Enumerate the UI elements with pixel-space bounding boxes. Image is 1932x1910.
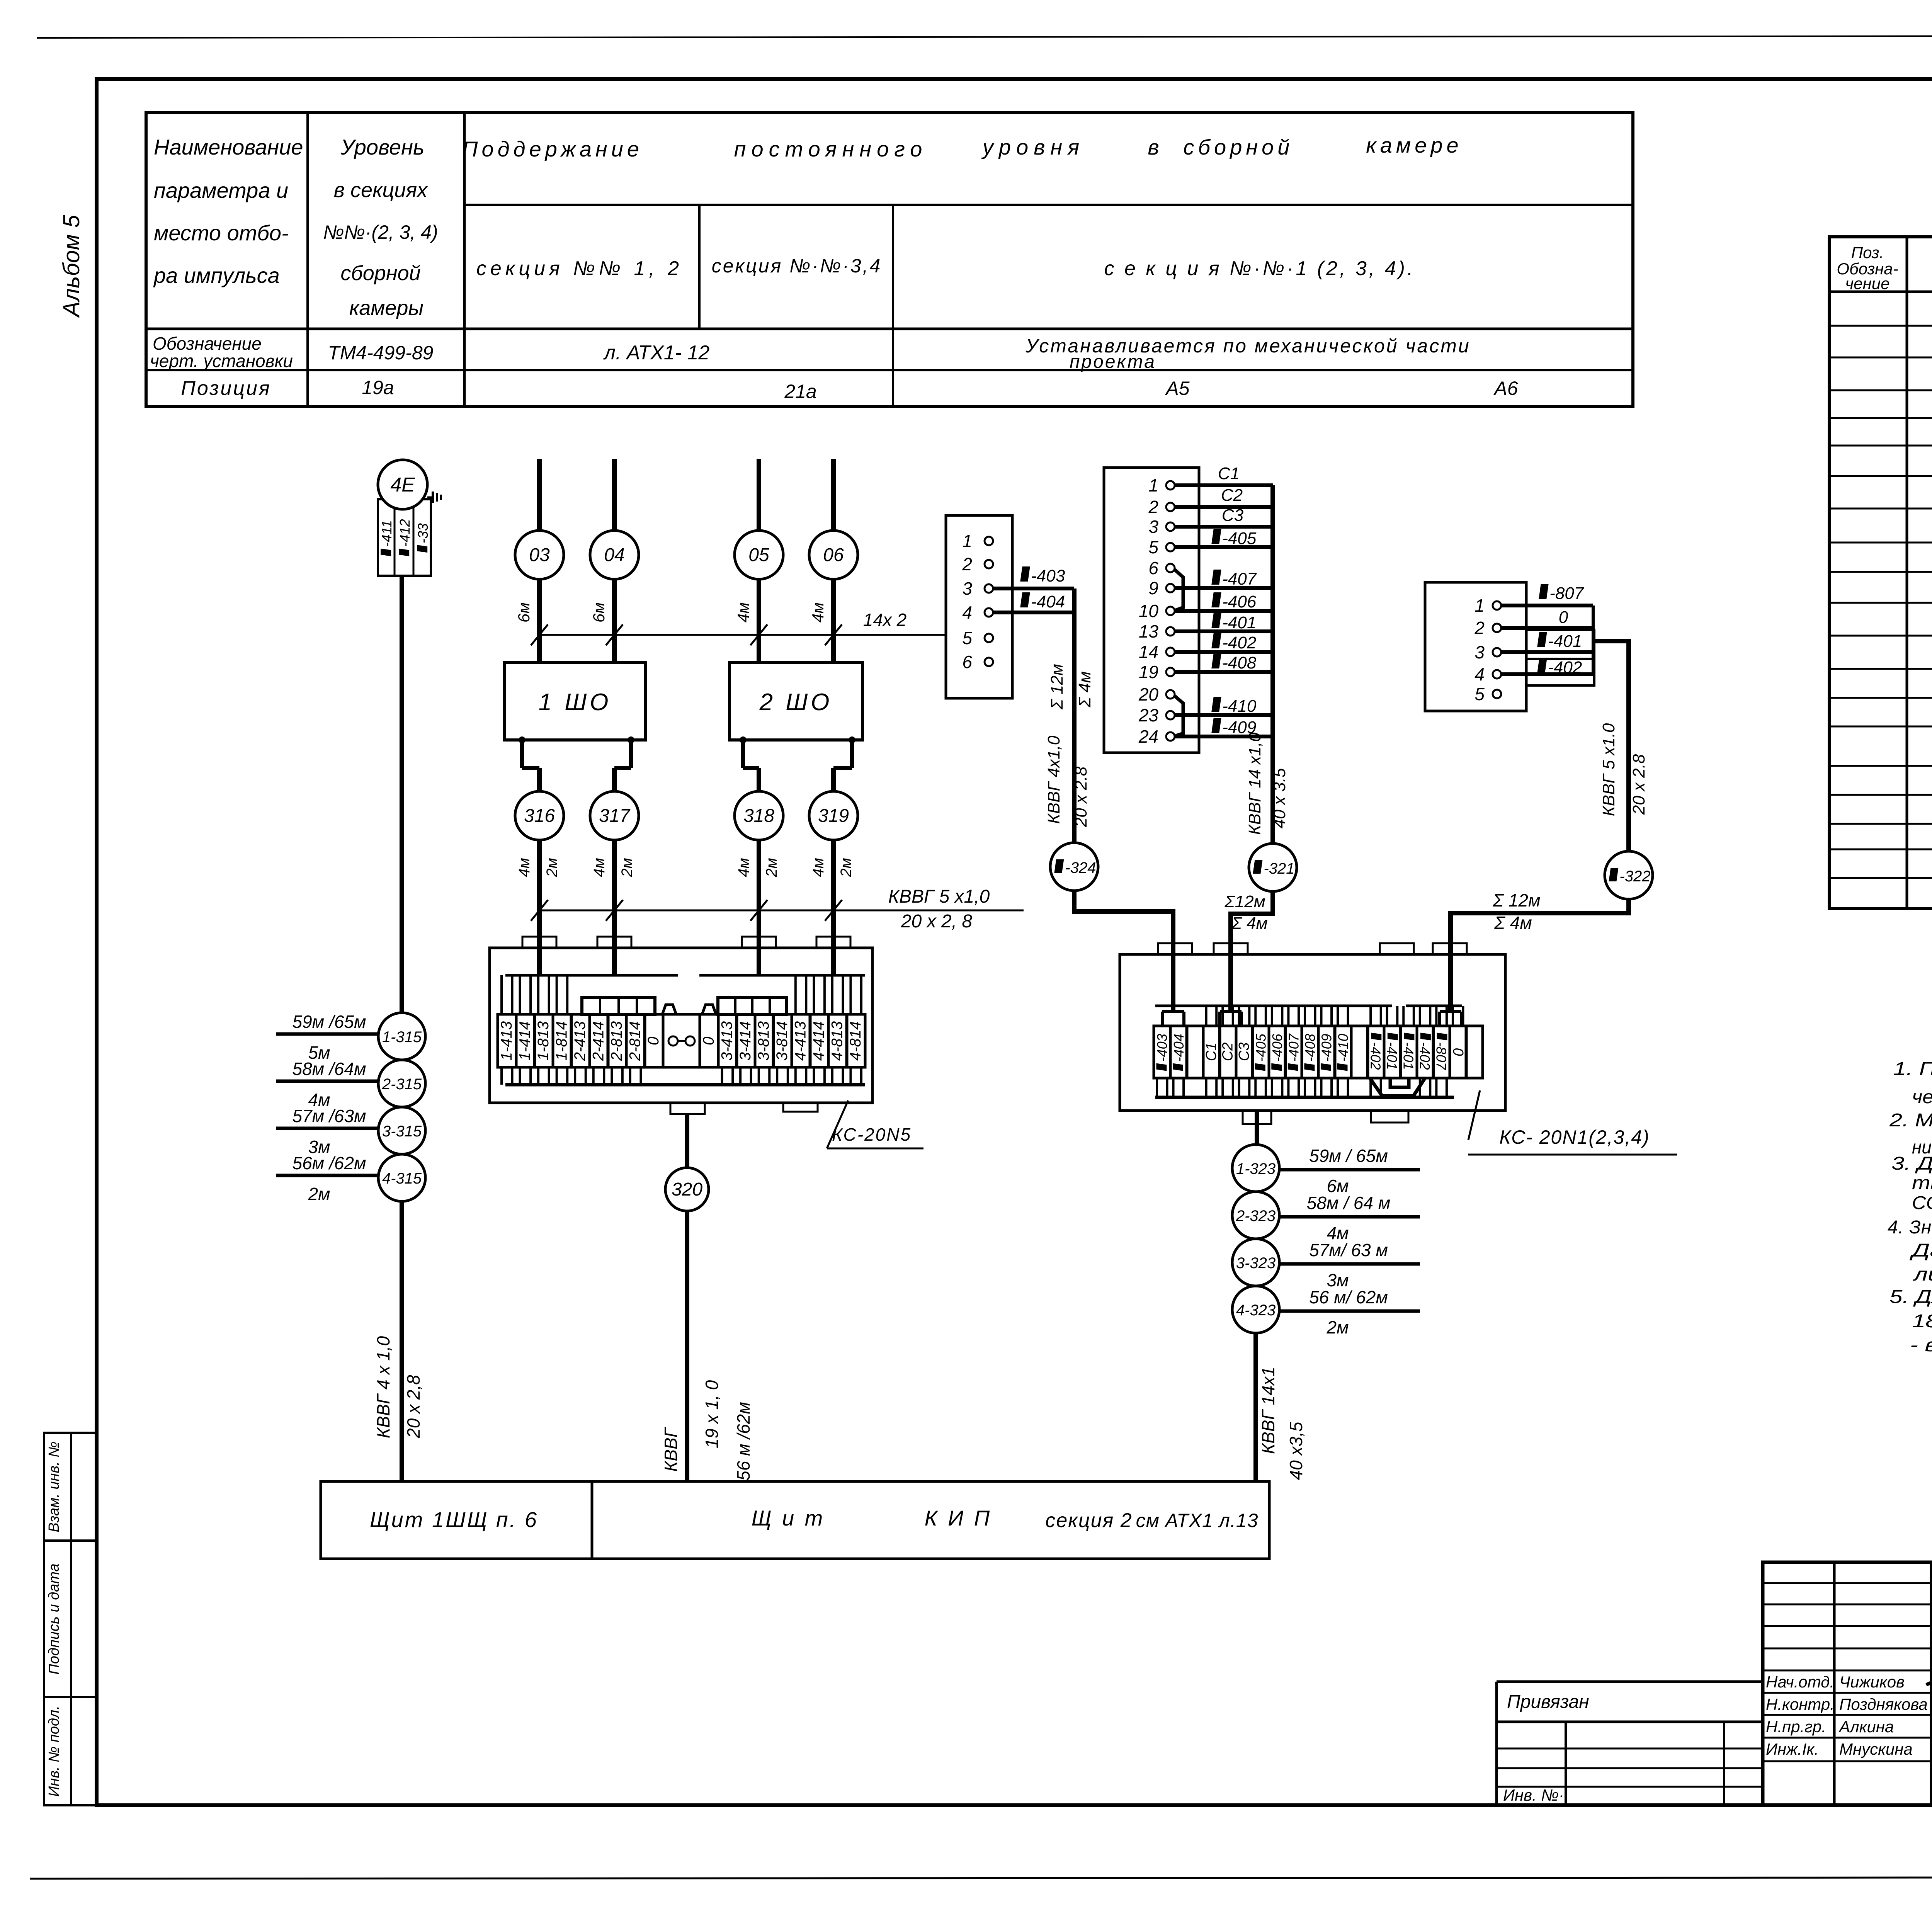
- svg-text:3: 3: [962, 578, 972, 599]
- wire 319 down into box: [831, 840, 836, 975]
- left margin box Взам. инв. №: [44, 1433, 71, 1541]
- svg-text:59м / 65м: 59м / 65м: [1309, 1146, 1388, 1166]
- svg-text:С1: С1: [1218, 464, 1240, 483]
- svg-text:4м: 4м: [591, 858, 608, 877]
- svg-text:4-315: 4-315: [382, 1170, 422, 1187]
- svg-text:С2: С2: [1219, 1043, 1236, 1061]
- svg-text:Алкина: Алкина: [1838, 1718, 1894, 1736]
- svg-text:С3: С3: [1236, 1043, 1252, 1061]
- svg-text:6м: 6м: [590, 602, 608, 622]
- svg-text:2м: 2м: [544, 858, 561, 878]
- svg-text:Позиция: Позиция: [181, 377, 271, 400]
- svg-text:4-414: 4-414: [810, 1021, 827, 1061]
- svg-text:0: 0: [1559, 608, 1568, 627]
- cable marker circle I-322: [1605, 851, 1653, 899]
- svg-text:6: 6: [1148, 558, 1158, 578]
- svg-text:Поз.: Поз.: [1851, 243, 1884, 262]
- wire from terminal 3: [993, 587, 1074, 590]
- wire label cell I-402: [1526, 659, 1594, 685]
- terminal wire: [1175, 650, 1273, 654]
- svg-text:уровня: уровня: [981, 135, 1085, 159]
- svg-text:с е к ц и я №·№·1 (2, 3, 4: с е к ц и я №·№·1 (2, 3, 4).: [1104, 257, 1415, 280]
- top tooth: [1158, 943, 1192, 954]
- svg-text:40 х3,5: 40 х3,5: [1286, 1422, 1306, 1480]
- svg-text:1-414: 1-414: [516, 1021, 533, 1061]
- svg-text:14: 14: [1139, 642, 1158, 662]
- svg-text:КВВГ 4х1,0: КВВГ 4х1,0: [1044, 735, 1063, 824]
- instrument circle 03: [515, 531, 564, 579]
- svg-text:л. АТХ1- 12: л. АТХ1- 12: [603, 342, 710, 364]
- top tooth: [742, 937, 776, 948]
- svg-text:КВВГ 14х1: КВВГ 14х1: [1258, 1367, 1278, 1454]
- svg-text:40 х 3.5: 40 х 3.5: [1270, 768, 1289, 828]
- upper rail: [505, 974, 678, 977]
- svg-text:-403: -403: [1031, 566, 1065, 585]
- terminal wire: [1175, 586, 1273, 590]
- wire top stub of 06: [831, 459, 836, 531]
- terminal wire: [1175, 670, 1273, 674]
- bottom tooth empty: [1371, 1111, 1408, 1123]
- svg-text:-410: -410: [1335, 1034, 1351, 1061]
- terminal 2: [1493, 624, 1501, 632]
- branch line of 1-315: [276, 1032, 378, 1036]
- svg-text:14х 2: 14х 2: [863, 610, 907, 630]
- svg-text:20: 20: [1138, 684, 1159, 704]
- svg-text:3-413: 3-413: [718, 1021, 735, 1061]
- svg-text:4м: 4м: [734, 602, 752, 622]
- wire label cell I-401: [1526, 630, 1594, 659]
- junction box КС-20№5 outline: [490, 948, 872, 1103]
- svg-text:23: 23: [1138, 705, 1159, 725]
- parameter table frame: [146, 112, 1633, 406]
- bottom tooth empty: [783, 1103, 818, 1112]
- svg-text:1-814: 1-814: [553, 1021, 570, 1061]
- svg-text:2: 2: [1474, 618, 1485, 638]
- svg-text:Позднякова: Позднякова: [1839, 1695, 1928, 1713]
- svg-text:Поддержание: Поддержание: [462, 137, 643, 161]
- svg-text:4-413: 4-413: [792, 1021, 809, 1061]
- branch line of 2-315: [276, 1080, 378, 1083]
- clamp symbol right of 4Е: [427, 497, 433, 498]
- svg-text:-408: -408: [1222, 653, 1257, 672]
- svg-text:2м: 2м: [838, 858, 855, 878]
- svg-text:2-315: 2-315: [382, 1076, 422, 1093]
- wire from tag down to 1-315: [400, 576, 404, 1014]
- svg-text:5: 5: [962, 628, 972, 648]
- svg-text:6м: 6м: [515, 602, 533, 622]
- svg-text:4м: 4м: [810, 858, 827, 877]
- svg-text:-411: -411: [379, 520, 395, 547]
- svg-text:06: 06: [823, 545, 844, 565]
- svg-text:секция №№ 1, 2: секция №№ 1, 2: [476, 257, 683, 280]
- circle 4-315: [378, 1154, 425, 1201]
- trapezoid link below cells: [1370, 1078, 1425, 1096]
- svg-text:-407: -407: [1222, 570, 1257, 588]
- instrument circle 318: [735, 791, 783, 840]
- terminal 9: [1166, 584, 1175, 592]
- wire top stub of 03: [537, 459, 542, 531]
- svg-text:секция №·№·3,4: секция №·№·3,4: [712, 255, 882, 277]
- svg-text:-405: -405: [1253, 1033, 1269, 1061]
- svg-text:19: 19: [1139, 662, 1158, 682]
- bottom tooth with wire: [1243, 1111, 1271, 1124]
- right edge of label cells: [1592, 605, 1595, 674]
- svg-text:С3: С3: [1222, 506, 1244, 525]
- svg-text:параметра и: параметра и: [154, 178, 288, 202]
- cable marker circle I-324: [1050, 843, 1098, 891]
- clamp trapezoids: [662, 1005, 676, 1014]
- svg-text:-404: -404: [1171, 1034, 1187, 1061]
- svg-text:-404: -404: [1031, 592, 1065, 611]
- svg-text:3-323: 3-323: [1236, 1255, 1276, 1272]
- circle 2-315: [378, 1060, 425, 1107]
- branch line of 4-323: [1279, 1310, 1420, 1313]
- svg-text:1: 1: [1148, 475, 1158, 495]
- svg-text:-406: -406: [1269, 1033, 1285, 1061]
- crossing tick: [825, 624, 842, 645]
- svg-text:Наименование: Наименование: [154, 135, 303, 159]
- svg-text:Данный чертеж рассматриват: Данный чертеж рассматривать совместно с: [1909, 1240, 1932, 1261]
- svg-text:2: 2: [962, 554, 972, 574]
- upper rail: [1155, 1005, 1392, 1007]
- jumper 20-24: [1175, 696, 1183, 736]
- cable to I-322: [1593, 641, 1629, 851]
- svg-text:2-813: 2-813: [608, 1021, 625, 1061]
- wire 03 to box: [537, 579, 542, 662]
- branch line of 1-323: [1279, 1168, 1420, 1172]
- svg-text:10: 10: [1139, 601, 1159, 621]
- svg-text:56м /62м: 56м /62м: [293, 1153, 366, 1173]
- instrument circle 320: [665, 1168, 709, 1211]
- svg-text:- в знаменателе.: - в знаменателе.: [1910, 1335, 1932, 1356]
- svg-text:4-323: 4-323: [1236, 1302, 1276, 1319]
- terminal wire: [1175, 525, 1273, 529]
- instrument circle 06: [809, 531, 858, 579]
- svg-text:19а: 19а: [362, 377, 394, 398]
- terminal strip КС-20№5: [498, 1014, 516, 1067]
- element list table frame: [1829, 237, 1932, 908]
- terminal 14: [1166, 648, 1175, 656]
- svg-text:Альбом 5: Альбом 5: [58, 215, 84, 318]
- svg-text:-401: -401: [1222, 613, 1256, 632]
- svg-text:3-315: 3-315: [382, 1123, 422, 1140]
- svg-text:4: 4: [962, 602, 972, 622]
- wire top stub of 05: [757, 459, 761, 531]
- svg-text:С2: С2: [1221, 486, 1243, 505]
- svg-text:камеры: камеры: [349, 296, 423, 320]
- svg-text:4м: 4м: [516, 858, 533, 877]
- terminal strip КС-20№1: [1154, 1026, 1170, 1078]
- terminal 19: [1166, 668, 1175, 676]
- left margin box Подпись и дата: [44, 1541, 71, 1697]
- wire label I-807: [1539, 584, 1548, 599]
- svg-text:-807: -807: [1434, 1042, 1449, 1071]
- terminal 5: [985, 634, 993, 642]
- svg-text:0: 0: [1450, 1048, 1466, 1056]
- wire 04 to box: [612, 579, 617, 662]
- svg-text:4. Знак: 4. Знак: [1888, 1217, 1932, 1238]
- svg-text:59м /65м: 59м /65м: [293, 1012, 366, 1032]
- instrument circle 317: [590, 791, 639, 840]
- svg-text:Нач.отд.: Нач.отд.: [1766, 1673, 1834, 1691]
- bottom tooth with wire: [670, 1103, 705, 1114]
- wire 05 to box: [757, 579, 761, 662]
- wire 06 to box: [831, 579, 836, 662]
- wire from box to 320: [685, 1114, 689, 1168]
- cable down to I-324: [1072, 588, 1077, 843]
- svg-text:Мнускина: Мнускина: [1839, 1740, 1913, 1758]
- svg-text:1: 1: [962, 531, 972, 551]
- svg-text:2м: 2м: [1326, 1317, 1349, 1337]
- svg-text:0: 0: [700, 1037, 717, 1045]
- svg-text:Чижиков: Чижиков: [1839, 1673, 1905, 1691]
- terminal wire: [1501, 672, 1593, 676]
- tap hook below box: [628, 736, 634, 743]
- jumper 6-10: [1175, 570, 1183, 610]
- svg-text:3-813: 3-813: [755, 1021, 772, 1061]
- svg-text:57м /63м: 57м /63м: [293, 1106, 366, 1126]
- svg-text:1. Позиции приборов и аппара: 1. Позиции приборов и аппаратуры указаны…: [1893, 1059, 1932, 1079]
- tap hook below box: [740, 736, 747, 743]
- terminal wire: [1501, 650, 1593, 654]
- top tooth: [522, 937, 556, 948]
- callout КС-20№5: [827, 1100, 848, 1148]
- teeth below strip and bottom rail: [500, 1067, 503, 1085]
- terminal 6: [985, 658, 993, 666]
- svg-text:Щ и т: Щ и т: [752, 1506, 825, 1530]
- svg-text:КВВГ 5 х1.0: КВВГ 5 х1.0: [1599, 723, 1618, 816]
- svg-text:Н.контр.: Н.контр.: [1766, 1695, 1835, 1713]
- svg-text:Σ 4м: Σ 4м: [1075, 671, 1094, 708]
- svg-text:18 м указаны в числителе: 18 м указаны в числителе, для отстойника…: [1912, 1311, 1932, 1332]
- wire 316 down into box: [537, 840, 542, 975]
- svg-text:1-413: 1-413: [498, 1021, 515, 1061]
- top tooth: [1214, 943, 1248, 954]
- wire I-324 to КС-20№1: [1074, 891, 1173, 1012]
- svg-text:21а: 21а: [784, 381, 816, 402]
- instrument circle 4Е: [378, 460, 427, 509]
- teeth above outer cells: [500, 975, 503, 1014]
- svg-text:2м: 2м: [308, 1184, 330, 1204]
- crossing tick: [606, 900, 623, 921]
- cable marker circle I-321: [1249, 844, 1297, 891]
- tap hook below box: [849, 736, 855, 743]
- svg-text:ТМ4-499-89: ТМ4-499-89: [328, 342, 434, 364]
- svg-text:А6: А6: [1493, 378, 1518, 399]
- branch line of 3-323: [1279, 1262, 1420, 1266]
- cable bus down to I-321: [1270, 485, 1275, 844]
- svg-text:13: 13: [1139, 621, 1159, 641]
- instrument circle 316: [515, 791, 564, 840]
- terminal 3: [1493, 648, 1501, 657]
- svg-text:см АТХ1 л.13: см АТХ1 л.13: [1136, 1510, 1259, 1531]
- svg-text:2м: 2м: [619, 858, 636, 878]
- terminal 1: [1166, 481, 1175, 490]
- instrument circle 319: [809, 791, 858, 840]
- svg-text:СССР от 17. 12. 1979 г. №: СССР от 17. 12. 1979 г. № 89-Д.: [1912, 1193, 1932, 1213]
- callout КС-20№1(2,3,4): [1468, 1090, 1480, 1140]
- svg-text:319: 319: [818, 806, 849, 826]
- terminal 5: [1166, 543, 1175, 551]
- terminal 20: [1166, 690, 1175, 699]
- junction box 2ШО: [730, 662, 862, 740]
- svg-text:4: 4: [1475, 664, 1485, 684]
- title block frame: [1763, 1562, 1932, 1805]
- svg-text:№№·(2, 3, 4): №№·(2, 3, 4): [323, 221, 438, 243]
- svg-text:320: 320: [672, 1179, 702, 1200]
- top tooth: [1380, 943, 1414, 954]
- svg-text:2. Монтаж защитного занулени: 2. Монтаж защитного зануления и заземлен…: [1889, 1110, 1932, 1131]
- svg-text:КС-20N5: КС-20N5: [832, 1124, 912, 1145]
- crossing tick: [825, 900, 842, 921]
- svg-text:-401: -401: [1384, 1042, 1400, 1070]
- wire I-321 to КС-20№1: [1231, 891, 1273, 1012]
- svg-text:постоянного: постоянного: [734, 137, 928, 161]
- wire 4-323 down to panel: [1253, 1333, 1258, 1481]
- crossing tick: [750, 900, 767, 921]
- terminal 2: [985, 560, 993, 568]
- crossing tick: [606, 624, 623, 645]
- fork into cells: [1220, 1010, 1242, 1013]
- tag labels I-411 I-412 I-33: [379, 520, 395, 556]
- wire to 1-323: [1255, 1111, 1259, 1145]
- strip link with two circles: [668, 1036, 678, 1046]
- terminal 2: [1166, 503, 1175, 511]
- top tooth: [816, 937, 850, 948]
- terminal wire: [1175, 609, 1273, 613]
- svg-text:К И П: К И П: [925, 1506, 992, 1530]
- wire labels I-405..I-409: [1211, 529, 1221, 544]
- branch line of 4-315: [276, 1174, 378, 1177]
- svg-text:-402: -402: [1548, 658, 1582, 677]
- svg-text:5: 5: [1148, 537, 1158, 557]
- terminal wire: [1175, 629, 1273, 633]
- svg-text:04: 04: [604, 545, 624, 565]
- svg-text:19 х 1, 0: 19 х 1, 0: [702, 1380, 722, 1448]
- svg-text:-408: -408: [1302, 1034, 1318, 1061]
- svg-text:чение: чение: [1845, 274, 1890, 293]
- svg-text:-405: -405: [1222, 529, 1257, 548]
- wire I-322 to КС-20№1: [1451, 899, 1629, 1012]
- svg-text:-403: -403: [1154, 1034, 1170, 1061]
- svg-text:черт. установки: черт. установки: [150, 351, 293, 371]
- svg-text:20 х 2, 8: 20 х 2, 8: [901, 911, 972, 932]
- circle 3-315: [378, 1107, 425, 1154]
- svg-text:1: 1: [1475, 595, 1485, 616]
- svg-text:2м: 2м: [763, 858, 780, 878]
- terminal 1: [1493, 601, 1501, 610]
- svg-text:Щит 1ШЩ п. 6: Щит 1ШЩ п. 6: [370, 1507, 538, 1532]
- svg-text:317: 317: [599, 806, 631, 826]
- circle 1-323: [1232, 1145, 1279, 1192]
- terminal 3: [985, 584, 993, 593]
- svg-text:58м / 64 м: 58м / 64 м: [1307, 1193, 1391, 1213]
- svg-text:проекта: проекта: [1070, 352, 1156, 372]
- terminal wire: [1175, 735, 1273, 738]
- terminal 3: [1166, 522, 1175, 531]
- top tooth: [1433, 943, 1467, 954]
- circle 1-315: [378, 1013, 425, 1060]
- terminal wire: [1175, 505, 1273, 509]
- svg-text:2-414: 2-414: [590, 1021, 607, 1061]
- svg-text:0: 0: [645, 1037, 662, 1045]
- svg-text:316: 316: [524, 806, 555, 826]
- svg-text:24: 24: [1138, 726, 1158, 747]
- svg-text:3-814: 3-814: [774, 1021, 791, 1061]
- svg-text:КВВГ 14 х1,0: КВВГ 14 х1,0: [1245, 732, 1264, 835]
- svg-text:5: 5: [1475, 684, 1485, 704]
- svg-text:4м: 4м: [809, 602, 827, 622]
- svg-text:-324: -324: [1065, 859, 1096, 876]
- svg-text:57м/ 63 м: 57м/ 63 м: [1309, 1240, 1388, 1260]
- terminal 6: [1166, 564, 1175, 572]
- svg-text:Σ 12м: Σ 12м: [1048, 664, 1066, 710]
- svg-text:20 х 2.8: 20 х 2.8: [1629, 754, 1648, 815]
- svg-text:КС- 20N1(2,3,4): КС- 20N1(2,3,4): [1499, 1126, 1650, 1148]
- svg-text:-33: -33: [415, 523, 431, 543]
- terminal box 24 outline: [1104, 468, 1199, 753]
- svg-text:-402: -402: [1417, 1042, 1433, 1070]
- svg-text:56 м/ 62м: 56 м/ 62м: [1309, 1287, 1388, 1307]
- wire label I-404: [1020, 592, 1030, 607]
- svg-text:-401: -401: [1548, 632, 1582, 651]
- svg-text:2 ШО: 2 ШО: [759, 689, 833, 716]
- terminal box 5 outline: [1425, 582, 1526, 711]
- svg-text:3: 3: [1148, 517, 1158, 537]
- raised block right: [718, 998, 787, 1014]
- svg-text:3-414: 3-414: [737, 1021, 754, 1061]
- wire top stub of 04: [612, 459, 617, 531]
- terminal wire: [1501, 626, 1593, 630]
- tap hook below box: [519, 736, 526, 743]
- signature scribbles: [1926, 1674, 1932, 1689]
- svg-text:4-814: 4-814: [847, 1021, 864, 1061]
- svg-text:Н.пр.гр.: Н.пр.гр.: [1766, 1718, 1826, 1736]
- svg-text:Σ 4м: Σ 4м: [1494, 913, 1532, 933]
- svg-text:место отбо-: место отбо-: [154, 221, 289, 245]
- fork into cells I-403 I-404: [1162, 1010, 1184, 1013]
- svg-text:в секциях: в секциях: [334, 179, 428, 202]
- svg-text:-412: -412: [397, 519, 413, 547]
- branch line of 2-323: [1279, 1215, 1420, 1219]
- svg-text:Σ12м: Σ12м: [1224, 892, 1265, 911]
- svg-text:сборной: сборной: [1184, 135, 1294, 159]
- junction box 1ШО: [505, 662, 646, 740]
- svg-text:03: 03: [529, 545, 550, 565]
- svg-text:3. Длины кабелей даны с учет: 3. Длины кабелей даны с учетом 6 % надба…: [1891, 1153, 1932, 1174]
- wire 318 down into box: [757, 840, 761, 975]
- svg-text:в: в: [1148, 135, 1159, 159]
- wire 317 down into box: [612, 840, 617, 975]
- svg-text:Взам. инв. №: Взам. инв. №: [46, 1441, 62, 1532]
- terminal wire: [1175, 545, 1273, 549]
- teeth below strip and bottom rail: [1156, 1078, 1158, 1097]
- svg-text:2-814: 2-814: [627, 1021, 644, 1061]
- svg-text:58м /64м: 58м /64м: [293, 1059, 366, 1079]
- terminal wire: [1175, 483, 1273, 487]
- terminal box 6 outline: [946, 515, 1012, 698]
- svg-text:-322: -322: [1619, 868, 1650, 885]
- svg-text:-410: -410: [1222, 697, 1257, 716]
- terminal 1: [985, 537, 993, 545]
- instrument circle 04: [590, 531, 639, 579]
- panel Щит КИП: [592, 1481, 1269, 1559]
- panel Щит 1ШЩ п.6: [321, 1481, 592, 1559]
- terminal 4: [1493, 670, 1501, 679]
- privyazan block: [1497, 1680, 1763, 1683]
- left margin box Инв. № подл.: [44, 1697, 71, 1805]
- junction box КС-20№1 outline: [1120, 954, 1505, 1111]
